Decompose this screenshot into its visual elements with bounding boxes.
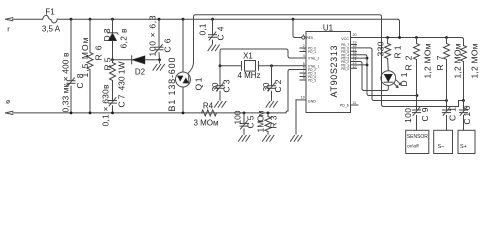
svg-text:R2: R2 xyxy=(404,55,414,70)
SENSOR box xyxy=(406,130,429,153)
junction VCC / R1 xyxy=(386,36,389,39)
svg-text:0,1 × 630в: 0,1 × 630в xyxy=(101,84,111,126)
svg-text:C7: C7 xyxy=(117,94,127,107)
triac Q1 body xyxy=(176,72,191,87)
wire Q1 top lead xyxy=(182,19,184,72)
svg-text:100: 100 xyxy=(403,108,413,123)
junction bottom rail / Q1 xyxy=(182,112,185,115)
ground at C5 xyxy=(239,135,243,141)
wire R1 top lead xyxy=(387,38,389,44)
wire GND pin to ground xyxy=(295,100,297,134)
svg-text:ø: ø xyxy=(6,99,10,106)
pin 9 stub xyxy=(300,79,306,81)
wire C2 to ground xyxy=(271,91,273,100)
capacitor C1 xyxy=(443,109,451,111)
zener D3 cathode bar xyxy=(108,32,117,34)
svg-text:3,5 A: 3,5 A xyxy=(42,25,61,34)
svg-text:R7: R7 xyxy=(435,55,445,70)
wire C9 to sensor box xyxy=(416,115,418,130)
wire crystal left lead xyxy=(220,65,242,67)
svg-text:Q1: Q1 xyxy=(194,77,204,90)
junction S- node / C1 xyxy=(445,99,448,102)
svg-text:R1: R1 xyxy=(393,45,403,58)
wire pin 14 to LED cathode xyxy=(351,62,389,91)
junction VCC / R2 xyxy=(415,36,418,39)
wire R2 to C9 xyxy=(416,60,418,110)
svg-text:r: r xyxy=(7,25,10,34)
wire mid node to D2 xyxy=(113,59,132,61)
svg-text:3: 3 xyxy=(303,48,305,52)
LED D1 arrow 2 xyxy=(397,80,402,85)
svg-text:11: 11 xyxy=(353,101,357,105)
junction top rail / D3 xyxy=(111,18,114,21)
resistor R6 xyxy=(87,53,93,70)
wire crystal left node to XTAL_2 pin 4 xyxy=(220,49,306,66)
pin 19 stub xyxy=(351,44,357,46)
IC U1 AT90S2313 body xyxy=(306,32,351,113)
wire Q1 gate top route to S+ node xyxy=(188,15,464,107)
fuse F1 xyxy=(43,15,58,23)
triac Q1 bar xyxy=(188,76,190,84)
LED D1 triangle xyxy=(384,74,392,82)
svg-text:AT90S2313: AT90S2313 xyxy=(329,46,339,98)
wire R8 to S+ node xyxy=(463,62,465,101)
junction crystal right / C2 xyxy=(270,64,273,67)
zener D3 triangle xyxy=(108,33,116,41)
wire C6 top lead xyxy=(158,19,160,46)
capacitor C3 xyxy=(216,85,224,87)
svg-text:C6: C6 xyxy=(163,38,173,52)
svg-text:1: 1 xyxy=(303,34,305,38)
wire R1 to LED xyxy=(387,59,390,71)
ground at C6 node xyxy=(153,64,157,70)
junction mid node / R5 xyxy=(111,58,114,61)
resistor R4 xyxy=(202,110,217,116)
resistor R3 xyxy=(265,117,271,132)
wire pin 16 to sensor node xyxy=(351,55,418,96)
pin 13 wire xyxy=(351,64,368,66)
resistor R5 xyxy=(110,63,116,81)
svg-text:U1: U1 xyxy=(323,24,334,33)
wire R3 to ground xyxy=(267,132,269,135)
wire C10 to S+ box xyxy=(463,115,465,130)
wire C5 top lead xyxy=(243,113,245,123)
wire R7 to C1 xyxy=(446,60,448,110)
wire top rail main xyxy=(57,18,397,20)
capacitor C10 xyxy=(460,109,468,111)
svg-text:S–: S– xyxy=(438,144,446,150)
svg-text:R4: R4 xyxy=(203,102,214,111)
pin 8 stub xyxy=(300,76,306,78)
svg-text:4 MHz: 4 MHz xyxy=(237,71,260,80)
wire C4 to ground xyxy=(212,40,214,44)
diode D2 cathode bar xyxy=(131,56,133,64)
capacitor C5 xyxy=(240,123,248,125)
junction bottom rail / R3 xyxy=(267,112,270,115)
zener D3 bar tick left xyxy=(107,31,108,33)
svg-text:1,2 МОм: 1,2 МОм xyxy=(423,43,433,78)
wire C3 top lead xyxy=(219,66,221,85)
wire S+ node to C10 xyxy=(463,101,465,110)
capacitor C4 xyxy=(209,34,217,36)
wire mid node to R5 xyxy=(112,60,114,63)
junction bottom rail / C8 xyxy=(70,112,73,115)
pin 11 stub xyxy=(351,104,359,106)
pin 17 stub xyxy=(351,50,357,52)
svg-text:1,2 МОм: 1,2 МОм xyxy=(470,43,480,78)
junction pin 15 tie xyxy=(366,57,369,60)
junction bottom rail / C5 xyxy=(243,112,246,115)
capacitor C6 xyxy=(155,46,163,48)
junction C6 / D2 / ground xyxy=(158,58,161,61)
svg-text:C4: C4 xyxy=(216,26,226,40)
pin 3 stub xyxy=(300,51,306,53)
svg-text:GND: GND xyxy=(308,99,316,103)
svg-text:VCC: VCC xyxy=(341,37,349,41)
wire C2 top lead xyxy=(271,66,273,85)
wire C7 bottom lead xyxy=(112,106,114,113)
wire C8 bottom lead xyxy=(70,86,72,113)
svg-text:30: 30 xyxy=(261,82,271,91)
diode D2 triangle xyxy=(132,56,145,64)
svg-text:C10: C10 xyxy=(462,105,472,124)
svg-text:F1: F1 xyxy=(45,8,55,17)
svg-text:RES: RES xyxy=(307,36,314,40)
svg-text:S+: S+ xyxy=(460,144,467,150)
junction top rail / C8 xyxy=(70,18,73,21)
svg-text:3 МОм: 3 МОм xyxy=(193,119,218,128)
wire D2 to C6 node xyxy=(145,59,160,61)
junction crystal left / C3 xyxy=(219,64,222,67)
svg-text:30: 30 xyxy=(210,82,220,91)
svg-text:D3: D3 xyxy=(102,28,112,41)
capacitor C9 xyxy=(413,109,421,111)
arrow left end of bottom rail xyxy=(6,111,13,114)
junction top rail / C6 xyxy=(158,18,161,21)
wire top rail left segment xyxy=(13,18,43,20)
capacitor C8 xyxy=(67,80,75,82)
wire R7 top lead xyxy=(446,38,448,44)
wire D3 to mid node xyxy=(112,41,114,60)
resistor R7 xyxy=(444,44,450,60)
wire to ground stem xyxy=(159,60,161,63)
svg-text:on\off: on\off xyxy=(407,144,419,149)
triac Q1 triangle down xyxy=(178,76,184,81)
wire D3 top lead xyxy=(112,19,114,33)
junction top rail / Q1 xyxy=(182,18,185,21)
svg-text:430 1W: 430 1W xyxy=(117,62,127,91)
svg-text:100 × 6,3: 100 × 6,3 xyxy=(148,15,158,56)
resistor R2 xyxy=(414,44,420,60)
ground at C3 xyxy=(215,101,219,107)
svg-text:20: 20 xyxy=(353,33,357,37)
svg-text:PD_5: PD_5 xyxy=(308,79,316,83)
svg-text:9: 9 xyxy=(303,76,305,80)
svg-text:10: 10 xyxy=(301,96,305,100)
junction VCC / top rail xyxy=(398,36,401,39)
wire bottom rail up to pin 6 xyxy=(286,70,306,113)
svg-text:0,33 мк × 400 в: 0,33 мк × 400 в xyxy=(61,52,71,112)
wire R5 to C7 xyxy=(112,81,114,100)
resistor R8 xyxy=(461,46,467,62)
wire C5 to ground xyxy=(243,129,245,134)
wire R2 top lead xyxy=(416,38,418,44)
LED D1 arrow 1 xyxy=(394,83,399,88)
svg-text:1,5 МОм: 1,5 МОм xyxy=(80,37,90,77)
wire R6 bottom lead xyxy=(89,70,91,113)
ground at C2 xyxy=(266,101,270,107)
pin 15 wire xyxy=(351,57,368,59)
pin 7 stub xyxy=(300,72,306,74)
resistor R1 xyxy=(385,44,391,59)
junction bottom rail / R6 xyxy=(89,112,92,115)
ground at R3 xyxy=(263,135,267,141)
zener D3 bar tick right xyxy=(117,33,118,35)
svg-text:PD_1: PD_1 xyxy=(308,50,316,54)
wire C3 to ground xyxy=(219,91,221,100)
wire R6 top lead xyxy=(89,19,91,52)
wire C1 to S- box xyxy=(446,115,448,130)
ground at IC GND xyxy=(291,135,295,141)
wire C4 top lead xyxy=(212,19,214,34)
wire VCC corner to R8 xyxy=(462,38,464,46)
LED D1 cathode bar xyxy=(384,81,392,83)
svg-text:XTAL_2: XTAL_2 xyxy=(308,57,320,61)
capacitor C2 xyxy=(268,85,276,87)
junction S+ node / C10 xyxy=(462,99,465,102)
svg-text:PB_0: PB_0 xyxy=(341,67,349,71)
wire pin 18 to S- node xyxy=(351,48,447,101)
wire R3 top lead xyxy=(267,113,269,117)
crystal X1 xyxy=(241,62,243,71)
svg-text:4: 4 xyxy=(303,54,305,58)
wire C6 bottom lead xyxy=(158,53,161,60)
svg-text:0,1: 0,1 xyxy=(198,23,208,35)
pin 1 inversion bubble xyxy=(302,36,305,39)
junction top rail / reset wire xyxy=(292,18,295,21)
S+ box xyxy=(458,130,475,153)
pin 10 GND stub xyxy=(296,99,306,101)
svg-text:SENSOR: SENSOR xyxy=(407,134,429,140)
svg-text:330: 330 xyxy=(376,41,386,56)
svg-text:R5: R5 xyxy=(103,57,113,70)
svg-text:C1: C1 xyxy=(448,107,458,121)
triac Q1 triangle up xyxy=(183,78,189,83)
capacitor C7 xyxy=(109,100,117,102)
wire VCC rail xyxy=(351,37,462,39)
junction bottom rail / C7 xyxy=(111,112,114,115)
svg-text:C9: C9 xyxy=(420,107,430,121)
junction sensor node / C9 xyxy=(416,94,419,97)
ground at C4 xyxy=(208,45,212,51)
junction VCC / R7 xyxy=(445,36,448,39)
junction top rail / R6 xyxy=(89,18,92,21)
svg-text:B1 138-600: B1 138-600 xyxy=(167,58,177,112)
S- box xyxy=(434,130,453,153)
svg-text:1 МОм: 1 МОм xyxy=(256,110,266,132)
wire Q1 bottom lead xyxy=(182,87,184,113)
wire bottom rail xyxy=(13,112,287,114)
pin 12 stub xyxy=(351,67,357,69)
svg-text:D2: D2 xyxy=(135,68,146,77)
svg-text:100: 100 xyxy=(233,110,243,124)
arrow left end of top rail xyxy=(6,18,13,21)
junction pin 13 tie xyxy=(366,64,369,67)
svg-text:X1: X1 xyxy=(243,52,253,61)
svg-text:D1: D1 xyxy=(399,72,409,86)
wire crystal right lead to XTAL_1 pin 5 xyxy=(259,65,307,67)
pin 2 stub xyxy=(300,47,306,49)
wire C8 top lead xyxy=(70,19,72,80)
wire reset to pin 1 xyxy=(293,19,302,37)
junction top rail / C4 xyxy=(211,18,214,21)
svg-text:6,2 в: 6,2 в xyxy=(119,28,129,48)
svg-text:PD_6: PD_6 xyxy=(340,103,349,107)
wire top rail corner down to VCC line xyxy=(398,19,400,37)
LED D1 body xyxy=(381,71,396,86)
